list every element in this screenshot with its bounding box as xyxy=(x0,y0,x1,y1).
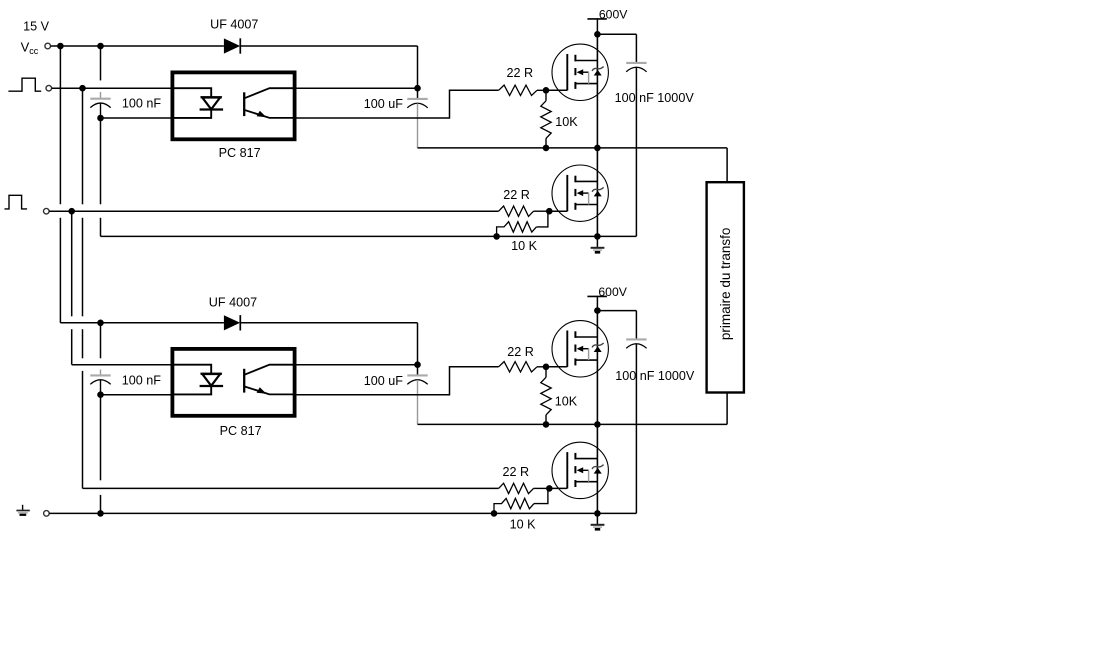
wire diode D2 to node B xyxy=(240,322,417,324)
svg-text:100 nF 1000V: 100 nF 1000V xyxy=(615,91,695,105)
optocoupler U1 PC 817 xyxy=(172,72,294,139)
svg-text:UF 4007: UF 4007 xyxy=(210,18,258,32)
transistor Q2 MOSFET low-side xyxy=(552,165,608,221)
junction R6 bottom xyxy=(543,421,550,428)
ground input terminal symbol xyxy=(22,505,24,511)
wire C4 to PC817 U2 pin2 xyxy=(101,394,173,396)
wire mid bridge1 to transformer xyxy=(418,147,728,149)
svg-text:PC 817: PC 817 xyxy=(220,424,262,438)
wire U1 collector to node A xyxy=(295,87,418,89)
resistor R2 10K xyxy=(545,90,547,101)
wire input1 to R7 xyxy=(83,487,499,489)
input ground terminal xyxy=(44,511,50,517)
svg-text:100 nF 1000V: 100 nF 1000V xyxy=(615,369,695,383)
svg-text:10K: 10K xyxy=(555,394,578,408)
transistor Q1 MOSFET high-side xyxy=(552,44,608,100)
wire C4 node lower vertical xyxy=(100,395,102,481)
svg-text:22 R: 22 R xyxy=(503,188,530,202)
wire 600V rail to C3 xyxy=(597,33,636,35)
junction mid-point bridge 1 xyxy=(594,145,601,152)
junction input 2 branch xyxy=(68,208,75,215)
svg-text:100 uF: 100 uF xyxy=(364,374,404,388)
wire drain Q3 xyxy=(596,311,598,425)
capacitor C5 100 uF xyxy=(417,365,419,376)
node Vcc 15V terminal xyxy=(45,43,51,49)
wire C1 node vertical xyxy=(100,118,102,204)
junction R8 ground xyxy=(491,510,498,517)
svg-text:22 R: 22 R xyxy=(507,66,534,80)
junction gate Q3 xyxy=(543,364,550,371)
junction 600V rail 2 xyxy=(594,307,601,314)
svg-text:100 uF: 100 uF xyxy=(364,97,404,111)
wire input2 to PC817 U2 pin1 xyxy=(72,364,173,366)
wire gate Q1 xyxy=(546,89,567,91)
svg-text:22 R: 22 R xyxy=(503,465,530,479)
svg-text:100 nF: 100 nF xyxy=(122,96,162,110)
junction node B xyxy=(414,361,421,368)
resistor R6 10K xyxy=(545,367,547,378)
resistor R4 10 K xyxy=(497,222,537,237)
wire 600V rail 2 to C6 xyxy=(597,310,636,312)
wire diode D1 to node A xyxy=(240,45,417,47)
wire C1 to PC817 U1 pin2 xyxy=(101,117,173,119)
wire Vcc bus vertical xyxy=(59,46,61,204)
diode D1 UF 4007 xyxy=(224,38,240,53)
capacitor C3 100 nF 1000V xyxy=(635,34,637,63)
wire drain Q1 xyxy=(596,34,598,148)
svg-text:15 V: 15 V xyxy=(23,20,50,34)
transformer primary block xyxy=(707,182,744,392)
capacitor C4 100 nF xyxy=(100,323,102,359)
junction input 1 branch xyxy=(79,85,86,92)
input 2 terminal xyxy=(44,208,50,214)
input 1 pulse symbol xyxy=(8,78,41,91)
wire input 1 to PC817 U1 xyxy=(52,87,173,89)
junction source Q2 xyxy=(594,233,601,240)
svg-text:primaire du transfo: primaire du transfo xyxy=(718,228,733,341)
capacitor C6 100 nF 1000V xyxy=(635,311,637,340)
junction C4 node ground xyxy=(97,510,104,517)
resistor R7 22 R xyxy=(499,483,534,493)
junction 600V rail xyxy=(594,31,601,38)
junction R4 ground xyxy=(493,233,500,240)
transistor Q4 MOSFET low-side xyxy=(552,442,608,498)
junction gate Q2 xyxy=(546,208,553,215)
ground bridge 1 xyxy=(596,236,598,247)
resistor R3 22 R xyxy=(499,206,534,216)
wire input1 bus vertical xyxy=(82,88,84,204)
diode D2 UF 4007 xyxy=(224,315,240,330)
junction gate Q4 xyxy=(546,485,553,492)
ground bridge 2 xyxy=(596,513,598,524)
junction source Q4 xyxy=(594,510,601,517)
wire mid bridge2 to transformer xyxy=(418,423,728,425)
svg-text:UF 4007: UF 4007 xyxy=(209,295,257,309)
svg-text:10 K: 10 K xyxy=(511,239,538,253)
junction C1 bottom xyxy=(97,115,104,122)
junction gate Q1 xyxy=(543,87,550,94)
input 2 pulse symbol xyxy=(5,195,28,209)
svg-text:10K: 10K xyxy=(555,115,578,129)
wire source Q3 drain Q4 xyxy=(596,424,598,513)
wire source rail bridge 2 xyxy=(49,512,636,514)
junction mid-point bridge 2 xyxy=(594,421,601,428)
wire U1 emitter to gate R1 xyxy=(295,90,499,118)
wire Vcc rail to diode xyxy=(51,45,224,47)
wire U2 emitter to gate R5 xyxy=(295,367,499,395)
resistor R5 22 R xyxy=(499,362,537,372)
junction node A xyxy=(414,85,421,92)
input 1 terminal xyxy=(46,85,52,91)
optocoupler U2 PC 817 xyxy=(172,349,294,416)
junction Vcc bus xyxy=(57,43,64,50)
wire gate Q4 xyxy=(549,487,567,489)
junction Vcc rail 2 cap node xyxy=(97,320,104,327)
svg-text:10 K: 10 K xyxy=(510,517,537,531)
svg-text:100 nF: 100 nF xyxy=(122,374,162,388)
capacitor C1 100 nF xyxy=(100,46,102,80)
resistor R1 22 R xyxy=(499,85,537,95)
wire source rail bridge 1 xyxy=(101,235,637,237)
svg-text:PC 817: PC 817 xyxy=(219,146,261,160)
capacitor C2 100 uF xyxy=(417,88,419,99)
junction Vcc cap node xyxy=(97,43,104,50)
wire U2 collector to node B xyxy=(295,364,418,366)
wire gate Q3 xyxy=(546,366,567,368)
wire gate Q2 xyxy=(549,210,567,212)
svg-text:22 R: 22 R xyxy=(507,345,534,359)
transistor Q3 MOSFET high-side xyxy=(552,321,608,377)
resistor R8 10 K xyxy=(494,498,534,513)
junction R2 bottom xyxy=(543,145,550,152)
junction C4 bottom xyxy=(97,391,104,398)
wire Vcc rail 2 xyxy=(60,322,224,324)
wire input2 bus vertical xyxy=(71,211,73,316)
wire source Q1 drain Q2 xyxy=(596,148,598,237)
wire input 2 to R3 xyxy=(49,210,498,212)
